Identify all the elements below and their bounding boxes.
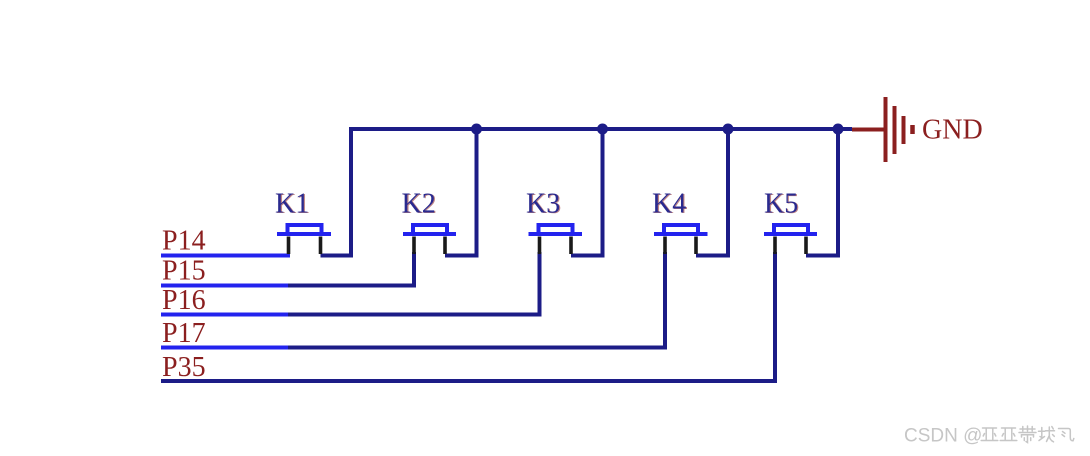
- svg-text:K3: K3: [526, 189, 560, 220]
- svg-text:K5: K5: [764, 189, 798, 220]
- svg-text:CSDN @: CSDN @: [904, 426, 982, 447]
- svg-text:P35: P35: [162, 352, 206, 383]
- svg-text:K2: K2: [402, 189, 436, 220]
- svg-text:P14: P14: [162, 226, 206, 257]
- svg-text:P17: P17: [162, 318, 206, 349]
- svg-text:P15: P15: [162, 256, 206, 287]
- svg-text:GND: GND: [922, 115, 983, 146]
- svg-text:P16: P16: [162, 285, 206, 316]
- svg-text:K4: K4: [652, 189, 686, 220]
- svg-text:K1: K1: [275, 189, 309, 220]
